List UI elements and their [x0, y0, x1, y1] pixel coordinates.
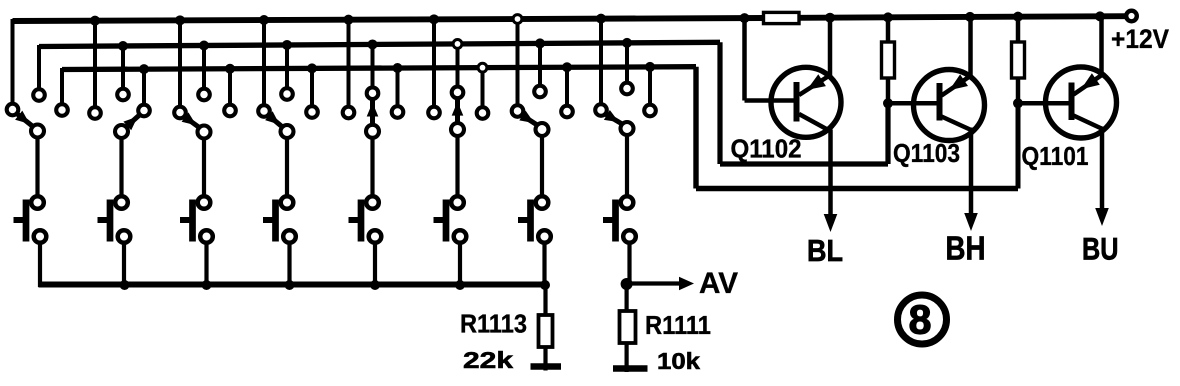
- wire switch 4 contact 2 drop from bus 2: [285, 45, 289, 90]
- wire switch 6 contact 1 drop from bus 1: [432, 19, 436, 108]
- node switch 7 contact A (bus 1): [512, 105, 524, 117]
- resistor R (Q1101 base pull-up): [1016, 17, 1021, 42]
- junction bus 2 / switch 2 tap: [118, 41, 128, 51]
- wire switch 6 contact 2 drop from bus 2: [456, 44, 460, 88]
- wire switch 3 contact 2 drop from bus 2: [202, 45, 206, 90]
- junction Q1101 base node: [1013, 98, 1023, 108]
- pushbutton S3 actuator: [189, 200, 196, 242]
- terminal +12V: [1126, 11, 1137, 22]
- node switch 7 pole: [536, 123, 549, 136]
- node switch 2 contact B (bus 2): [117, 89, 129, 101]
- svg-text:+12V: +12V: [1111, 24, 1169, 54]
- junction bus 1 / Q1102 base tap: [740, 13, 750, 23]
- pushbutton S6 actuator: [443, 200, 450, 242]
- pushbutton S7 actuator: [527, 200, 534, 242]
- node switch 1 contact C (bus 3): [56, 104, 68, 116]
- Q1103 collector: [942, 117, 971, 130]
- junction bottom rail / R1113 / S7: [540, 280, 550, 290]
- wire Q1101 emitter to +12V rail: [1099, 16, 1104, 76]
- wire bottom rail (pushbutton common): [39, 282, 546, 288]
- pushbutton S1 bottom contact: [34, 230, 47, 243]
- wire pushbutton S1 to bottom rail: [38, 241, 42, 287]
- pushbutton S8 bottom contact: [623, 230, 636, 243]
- Q1101 collector: [1074, 116, 1102, 129]
- svg-text:AV: AV: [699, 267, 738, 300]
- wire switch 2 contact 3 drop from bus 3: [142, 69, 146, 106]
- svg-text:BH: BH: [946, 230, 986, 267]
- ground (R1113): [531, 363, 562, 370]
- switch S3 wiper arm: [184, 116, 200, 128]
- pushbutton S6 bottom contact: [454, 230, 467, 243]
- node switch 3 contact A (bus 1): [174, 107, 186, 119]
- svg-text:BU: BU: [1082, 231, 1119, 267]
- pushbutton S1 top contact: [31, 196, 44, 209]
- node switch 3 pole: [198, 126, 211, 139]
- svg-text:Q1101: Q1101: [1022, 141, 1089, 171]
- node switch 4 contact C (bus 3): [306, 106, 318, 118]
- switch S7 wiper arm: [521, 115, 538, 126]
- junction bus 3 / switch 3 tap: [225, 64, 235, 74]
- pushbutton S2 bottom contact: [118, 230, 131, 243]
- node switch 2 contact A (bus 1): [89, 107, 101, 119]
- wire switch 7 contact 3 drop from bus 3: [565, 67, 569, 107]
- switch S1 wiper arm: [16, 113, 33, 127]
- junction bottom rail / S2: [120, 280, 130, 290]
- wire bus 2 to Q1103 base (L path): [717, 42, 722, 164]
- junction bus 2 / switch 5 tap: [368, 39, 378, 49]
- wire Q1101 collector output: [1100, 127, 1105, 213]
- wire switch 3 contact 3 drop from bus 3: [228, 69, 232, 106]
- Q1101 base bar: [1069, 83, 1075, 121]
- pushbutton S5 bottom contact: [369, 230, 382, 243]
- wire switch 8 contact 3 drop from bus 3: [648, 67, 652, 106]
- node switch 6 contact B (bus 2): [452, 87, 464, 99]
- junction bus 1 / switch 6 tap: [429, 14, 439, 24]
- node switch 5 pole: [366, 125, 379, 138]
- junction bus 3 / switch 5 tap: [393, 63, 403, 73]
- pushbutton S4 actuator: [272, 200, 279, 242]
- junction bus 1 / switch 4 tap: [259, 15, 269, 25]
- pushbutton S2 actuator: [107, 200, 114, 242]
- junction bus 2 / switch 7 tap: [535, 38, 545, 48]
- wire Q1102 collector output: [828, 130, 833, 219]
- node switch 3 contact B (bus 2): [198, 89, 210, 101]
- switch S4 wiper arm: [268, 115, 283, 128]
- wire to AV output with arrow: [627, 281, 680, 285]
- wire bus 3 (bottom switch bus): [62, 67, 696, 70]
- wire switch 7 contact 1 drop from bus 1: [516, 19, 520, 107]
- node switch 4 contact B (bus 2): [281, 88, 293, 100]
- junction bus 3 / switch 2 tap: [139, 64, 149, 74]
- Q1101 emitter (arrow to base): [1074, 75, 1103, 95]
- junction bus 1 / switch 8 tap: [596, 14, 606, 24]
- wire bus 3 to Q1101 base (L path): [693, 67, 698, 189]
- junction bus 2 / switch 4 tap: [282, 40, 292, 50]
- svg-text:BL: BL: [807, 233, 843, 268]
- wire bus 1 left end drop to switch 1 contact: [11, 19, 15, 105]
- wire switch 5 pole to pushbutton: [370, 138, 374, 197]
- junction bus 3 / switch 7 tap: [562, 62, 572, 72]
- pushbutton S7 bottom contact: [538, 230, 551, 243]
- svg-text:R1111: R1111: [645, 312, 711, 340]
- node switch 8 pole: [621, 122, 634, 135]
- resistor R1111: [624, 284, 628, 311]
- wire switch 7 pole to pushbutton: [540, 136, 544, 197]
- junction ring on bus 3 at switch 6: [478, 63, 487, 72]
- wire switch 6 pole to pushbutton: [455, 136, 459, 197]
- junction rail / R(Q1103) tap: [883, 12, 893, 22]
- wire switch 8 pole to pushbutton: [625, 135, 629, 197]
- wire switch 8 contact 1 drop from bus 1: [599, 19, 603, 106]
- Q1102 emitter (arrow to base): [799, 76, 830, 96]
- wire pushbutton S5 to bottom rail: [373, 241, 377, 287]
- node switch 1 pole: [31, 125, 44, 138]
- wire bus1 down to Q1102 base: [742, 18, 747, 101]
- node switch 2 contact C (bus 3): [138, 105, 150, 117]
- junction rail / R(Q1101) tap: [1013, 12, 1023, 22]
- wire pushbutton S3 to bottom rail: [204, 241, 208, 287]
- node switch 5 contact B (bus 2): [367, 87, 379, 99]
- wire pushbutton S2 to bottom rail: [122, 241, 126, 287]
- Q1103 base bar: [937, 83, 943, 121]
- pushbutton S8 top contact: [621, 196, 634, 209]
- pushbutton S2 top contact: [115, 196, 128, 209]
- Q1102 base wire: [745, 98, 796, 103]
- junction bus 2 / switch 3 tap: [199, 40, 209, 50]
- junction bottom rail / S6: [455, 280, 465, 290]
- node switch 3 contact C (bus 3): [224, 105, 236, 117]
- wire switch 4 pole to pushbutton: [285, 138, 289, 197]
- wire switch 5 contact 3 drop from bus 3: [396, 68, 400, 108]
- junction rail / Q1103 emitter: [965, 12, 975, 22]
- node switch 8 contact A (bus 1): [595, 104, 607, 116]
- switch S6 wiper arm: [455, 99, 460, 123]
- Q1103 emitter (arrow to base): [942, 76, 972, 96]
- pushbutton S1 actuator: [23, 200, 30, 242]
- wire bus 1 (top switch bus, left segment to resistor): [13, 18, 764, 21]
- pushbutton S4 bottom contact: [283, 230, 296, 243]
- Q1101 base wire: [1018, 101, 1070, 106]
- wire Q1102 emitter to +12V rail: [828, 18, 833, 78]
- node switch 1 contact A (bus 1): [7, 104, 19, 116]
- node switch 6 contact A (bus 1): [428, 107, 440, 119]
- transistor Q1103: [914, 70, 985, 141]
- wire switch 6 contact 3 drop from bus 3: [481, 68, 485, 109]
- junction bottom rail / S5: [370, 280, 380, 290]
- wire bus 2 left end drop to contact: [37, 45, 41, 90]
- node switch 7 contact B (bus 2): [534, 86, 546, 98]
- junction bus 1 / switch 2 tap: [90, 16, 100, 26]
- transistor Q1102: [771, 67, 841, 137]
- junction bus 3 / switch 8 tap: [645, 62, 655, 72]
- node switch 1 contact B (bus 2): [33, 89, 45, 101]
- wire bus 2 (middle switch bus): [39, 42, 720, 46]
- pushbutton S8 actuator: [612, 200, 619, 242]
- node switch 8 contact B (bus 2): [621, 83, 633, 95]
- resistor R (series in top rail): [764, 12, 800, 23]
- wire switch 4 contact 1 drop from bus 1: [262, 20, 266, 107]
- junction bus 3 / switch 4 tap: [307, 63, 317, 73]
- pushbutton S6 top contact: [451, 196, 464, 209]
- node switch 5 contact C (bus 3): [392, 106, 404, 118]
- pushbutton S3 top contact: [198, 196, 211, 209]
- pushbutton S5 actuator: [358, 200, 365, 242]
- pushbutton S3 bottom contact: [200, 230, 213, 243]
- wire +12V rail (right segment): [799, 16, 1126, 18]
- wire switch 1 pole to pushbutton: [35, 138, 39, 198]
- svg-text:10k: 10k: [657, 348, 700, 374]
- wire pushbutton S7 to bottom rail: [542, 241, 546, 287]
- junction ring on bus 1 at switch 7: [513, 15, 522, 24]
- junction ring on bus 2 at switch 6: [453, 40, 462, 49]
- node switch 7 contact C (bus 3): [561, 106, 573, 118]
- wire pushbutton S8 to bottom rail: [627, 241, 631, 287]
- junction bus 1 / switch 3 tap: [175, 15, 185, 25]
- pushbutton S5 top contact: [366, 196, 379, 209]
- wire switch 8 contact 2 drop from bus 2: [625, 43, 629, 84]
- svg-text:Q1103: Q1103: [893, 138, 960, 168]
- wire Q1103 collector output: [969, 128, 974, 218]
- wire switch 4 contact 3 drop from bus 3: [310, 68, 314, 107]
- wire switch 2 contact 1 drop from bus 1: [93, 21, 97, 109]
- junction S8 / R1111 / AV node: [621, 278, 633, 290]
- pushbutton S4 top contact: [281, 196, 294, 209]
- junction Q1103 base node: [883, 98, 893, 108]
- node switch 4 pole: [281, 125, 294, 138]
- wire switch 3 pole to pushbutton: [202, 139, 206, 198]
- wire switch 7 contact 2 drop from bus 2: [538, 43, 542, 87]
- node switch 6 pole: [451, 123, 464, 136]
- wire pushbutton S6 to bottom rail: [458, 241, 462, 287]
- switch S5 wiper arm: [370, 100, 375, 125]
- svg-text:8: 8: [909, 297, 932, 343]
- switch S8 wiper arm: [605, 114, 623, 125]
- junction bottom rail / S4: [285, 280, 295, 290]
- wire switch 2 contact 2 drop from bus 2: [121, 46, 125, 90]
- wire pushbutton S4 to bottom rail: [287, 241, 291, 287]
- wire switch 2 pole to pushbutton: [119, 138, 123, 197]
- node switch 6 contact C (bus 3): [477, 107, 489, 119]
- wire switch 5 contact 2 drop from bus 2: [371, 44, 375, 88]
- Q1102 collector: [799, 114, 831, 132]
- transistor Q1101: [1046, 67, 1117, 138]
- node switch 2 pole: [115, 125, 128, 138]
- node switch 4 contact A (bus 1): [258, 105, 270, 117]
- wire switch 3 contact 1 drop from bus 1: [178, 20, 182, 108]
- Q1102 base bar: [794, 82, 800, 122]
- wire bus 3 left end drop to contact: [60, 68, 64, 105]
- resistor R (Q1103 base pull-up): [886, 17, 891, 42]
- svg-text:Q1102: Q1102: [731, 136, 802, 164]
- figure number 8 (circled): [898, 295, 947, 344]
- node switch 5 contact A (bus 1): [343, 107, 355, 119]
- junction rail / Q1102 emitter: [825, 13, 835, 23]
- Q1103 base wire: [888, 101, 938, 106]
- svg-text:22k: 22k: [463, 347, 513, 373]
- junction bottom rail / S3: [202, 280, 212, 290]
- junction bus 1 / switch 5 tap: [344, 15, 354, 25]
- resistor R1113: [543, 285, 547, 315]
- junction rail / Q1101 emitter: [1095, 11, 1105, 21]
- wire switch 5 contact 1 drop from bus 1: [347, 20, 351, 109]
- switch S2 wiper arm: [126, 114, 141, 127]
- node switch 8 contact C (bus 3): [644, 105, 656, 117]
- svg-text:R1113: R1113: [460, 311, 527, 339]
- wire Q1103 emitter to +12V rail: [968, 17, 973, 78]
- pushbutton S7 top contact: [536, 196, 549, 209]
- ground (R1111): [613, 365, 648, 372]
- junction bus 2 / switch 8 tap: [622, 38, 632, 48]
